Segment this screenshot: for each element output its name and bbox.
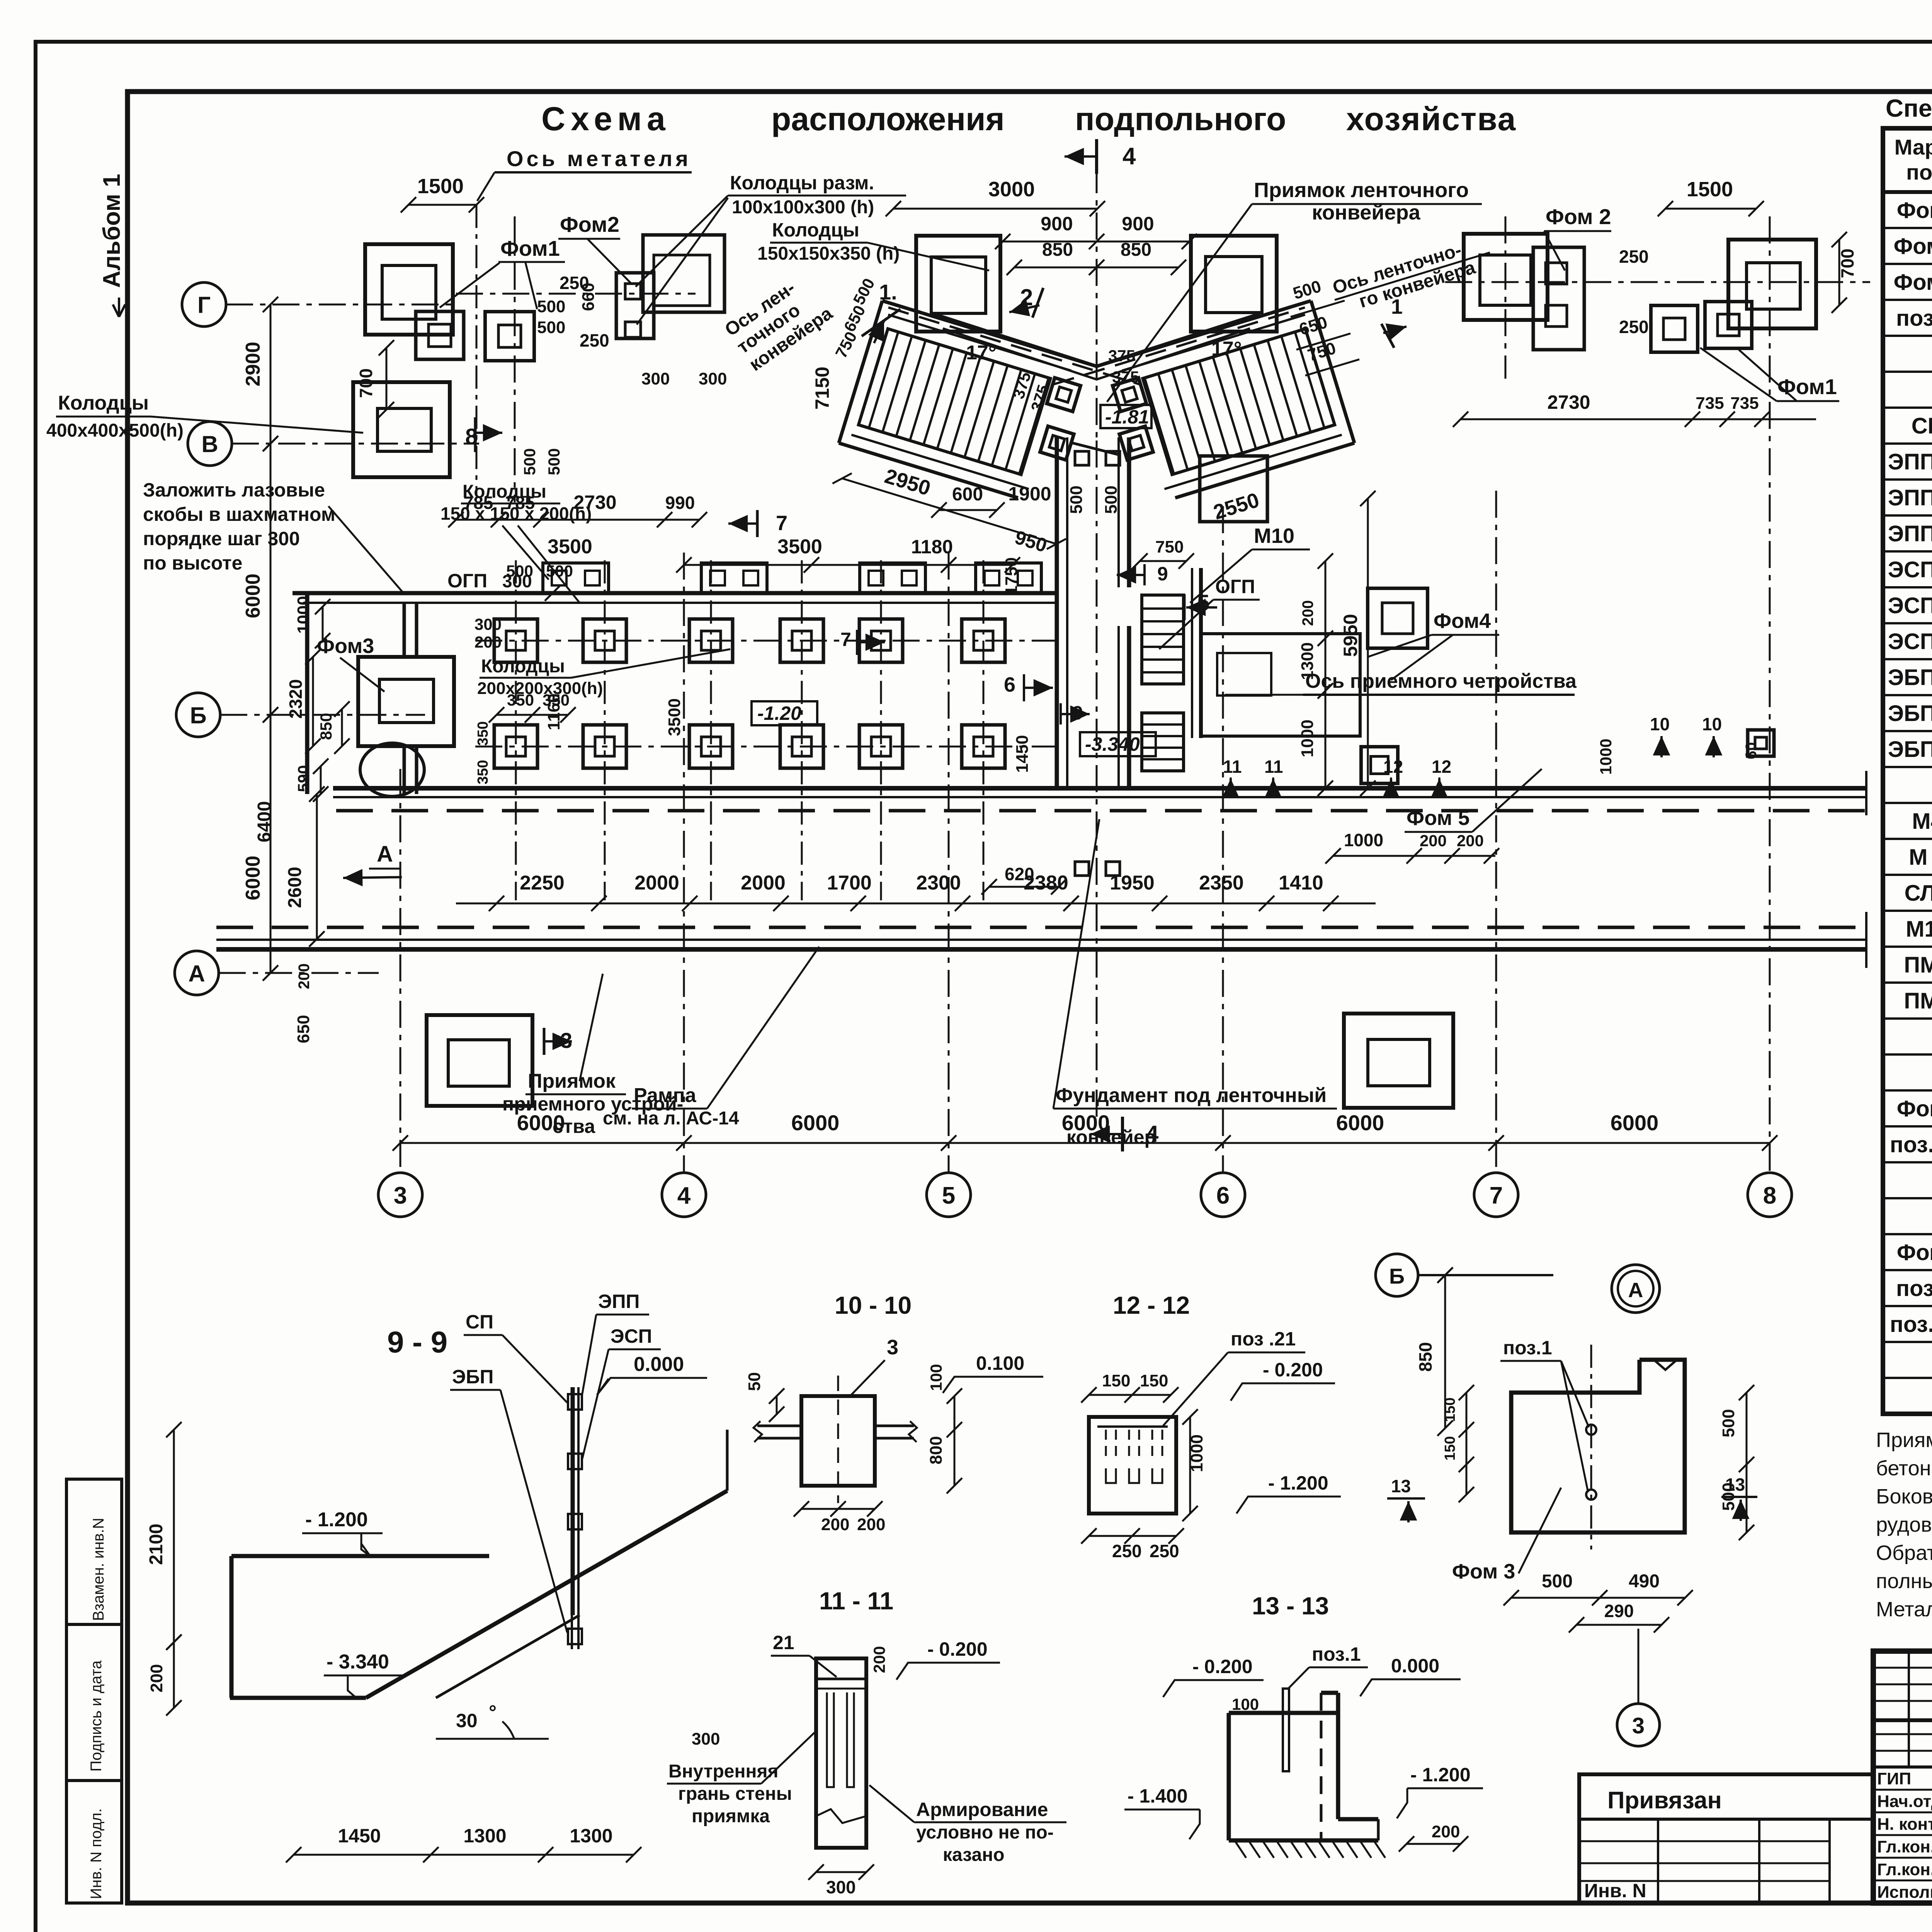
svg-text:3: 3 [887,1336,898,1359]
svg-text:Фундамент под ленточный: Фундамент под ленточный [1056,1084,1327,1107]
svg-text:1180: 1180 [911,536,953,558]
svg-text:490: 490 [1629,1571,1660,1592]
grid bubble 3 detail [1617,1704,1660,1746]
label axis of belt conveyor left (rotated) [721,268,836,375]
svg-text:условно не по-: условно не по- [916,1822,1054,1843]
svg-text:350: 350 [543,691,570,709]
svg-text:Заложить лазовые: Заложить лазовые [143,479,325,501]
foundation unit Fom2 right [1533,247,1584,350]
channel ladder squares [1075,451,1089,465]
svg-text:250: 250 [1112,1541,1142,1561]
title block [1873,1651,1932,1903]
svg-text:290: 290 [1604,1601,1634,1621]
dims top-left cluster [408,204,476,206]
svg-text:990: 990 [665,493,695,513]
left trench outline [293,591,1057,595]
dim row 785 785 2730 990 [456,519,699,521]
svg-text:ЭСП 60: ЭСП 60 [1888,629,1932,654]
privyazan block [1579,1774,1873,1903]
foundation big square top-right 2 [1728,240,1816,328]
svg-text:Привязан: Привязан [1607,1787,1722,1814]
svg-text:Колодцы: Колодцы [481,656,565,677]
svg-text:поз. 20: поз. 20 [1890,1312,1932,1337]
svg-text:А: А [188,961,205,986]
foundation squares row 2 [494,725,537,768]
svg-text:1: 1 [1391,295,1403,318]
central channel walls [1055,437,1059,788]
svg-text:250: 250 [1619,317,1649,337]
svg-text:М10: М10 [1906,917,1932,942]
svg-text:Б: Б [1389,1264,1405,1288]
svg-text:11 - 11: 11 - 11 [819,1587,893,1615]
svg-text:порядке шаг 300: порядке шаг 300 [143,528,300,549]
svg-text:ЭСП 18: ЭСП 18 [1888,593,1932,618]
9-9 dim 200 [173,1642,175,1708]
foundation rect right of Fom2 [643,235,724,312]
svg-text:1300: 1300 [463,1825,506,1847]
svg-text:700: 700 [1837,248,1857,278]
svg-text:150: 150 [1442,1398,1458,1422]
12-12 body [1089,1417,1176,1514]
svg-text:200: 200 [1420,832,1447,850]
svg-text:В: В [201,431,218,457]
road band lines [333,786,1866,791]
svg-text:Фом3: Фом3 [317,634,374,658]
dims 1000 200 200 right road [1333,855,1495,857]
svg-text:А: А [1628,1279,1643,1302]
svg-text:поз. 1: поз. 1 [1896,306,1932,331]
svg-text:М4: М4 [1912,809,1932,834]
svg-text:3500: 3500 [548,536,592,558]
svg-text:Фом 2: Фом 2 [1894,234,1932,259]
13-13 ground hatch [1235,1840,1246,1858]
svg-text:3500: 3500 [777,536,822,558]
svg-text:Альбом 1: Альбом 1 [99,174,125,288]
svg-text:9: 9 [1157,563,1168,585]
svg-text:4: 4 [677,1182,691,1209]
svg-text:Взамен. инв.N: Взамен. инв.N [90,1518,107,1621]
svg-text:500: 500 [1067,486,1086,514]
foundation small squares right [1651,306,1698,352]
svg-text:350: 350 [475,760,491,784]
svg-text:Фом 3: Фом 3 [1452,1560,1515,1583]
svg-text:ЭБП: ЭБП [452,1366,493,1388]
svg-text:Боковые поверхности стен при: Боковые поверхности стен приямков и фунд… [1876,1485,1932,1508]
svg-text:Фом1: Фом1 [500,236,560,260]
svg-text:Обратную засыпку пазух пр: Обратную засыпку пазух производить местн… [1876,1541,1932,1565]
svg-text:850: 850 [1121,240,1151,260]
svg-text:ЭСП: ЭСП [611,1325,652,1347]
shaft from trench corner down to Fom3 [403,603,406,657]
svg-text:ЭПП 60: ЭПП 60 [1888,521,1932,546]
dims top-right cluster [1665,208,1756,210]
svg-text:- 0.200: - 0.200 [1263,1359,1323,1381]
svg-text:5: 5 [942,1182,955,1209]
svg-text:50: 50 [745,1372,764,1391]
svg-text:21: 21 [773,1632,794,1653]
section mark 4 bottom [1121,1117,1124,1151]
dim row 3500 3500 1180 [684,564,1012,566]
svg-text:350: 350 [507,691,534,709]
svg-text:Приямки, фундаменты под обор: Приямки, фундаменты под оборудование вып… [1876,1429,1932,1452]
svg-text:6000: 6000 [791,1111,840,1135]
svg-text:2320: 2320 [286,679,306,719]
svg-text:1700: 1700 [827,872,872,894]
svg-text:Фом4: Фом4 [1434,609,1491,633]
svg-text:7150: 7150 [811,367,833,410]
row axis lines [226,304,456,306]
svg-text:1.: 1. [879,280,897,304]
svg-text:900: 900 [1122,213,1154,235]
svg-text:3000: 3000 [988,178,1035,201]
detail Fom3 bottom dims [1511,1597,1685,1599]
svg-text:1000: 1000 [1344,830,1383,850]
svg-text:Инв. N: Инв. N [1584,1880,1646,1901]
svg-text:900: 900 [1041,213,1073,235]
svg-text:200: 200 [857,1515,885,1534]
svg-text:13: 13 [1391,1476,1411,1496]
svg-text:2000: 2000 [634,872,679,894]
svg-text:300: 300 [474,615,502,633]
svg-text:- 0.200: - 0.200 [1192,1656,1253,1677]
small foundation near 60 mark [1748,730,1774,756]
svg-text:Фом1: Фом1 [1897,198,1932,223]
svg-text:650: 650 [294,1015,313,1043]
foundation square right of shaft [1368,588,1428,648]
foundation big square top-right 1 [1464,234,1548,320]
axis line through top-left cluster [456,293,696,295]
svg-text:2600: 2600 [285,867,305,908]
svg-text:СП: СП [1912,413,1932,439]
Y pit top square left [916,236,1000,332]
9-9 pit outline [231,1554,489,1558]
svg-text:Фом5: Фом5 [1897,1240,1932,1265]
svg-text:Инв. N подл.: Инв. N подл. [88,1808,105,1899]
svg-text:ЭСП 15: ЭСП 15 [1888,557,1932,582]
dims above Y pit [893,208,1097,210]
column grid lines 3-8 [400,769,401,1173]
svg-text:0.000: 0.000 [634,1353,684,1376]
row axis bubbles [182,282,226,327]
svg-text:150: 150 [1140,1371,1168,1390]
svg-text:Фом1: Фом1 [1777,374,1837,399]
svg-text:660: 660 [579,283,598,311]
svg-text:Фом 2: Фом 2 [1546,204,1611,229]
svg-text:3500: 3500 [665,698,684,736]
foundation big square V-row [353,382,450,477]
svg-text:13 - 13: 13 - 13 [1252,1592,1329,1620]
svg-text:поз .21: поз .21 [1231,1328,1296,1350]
svg-text:2300: 2300 [916,872,961,894]
svg-text:500: 500 [1102,486,1121,514]
svg-text:200х200х300(h): 200х200х300(h) [477,679,603,698]
svg-text:10: 10 [1702,714,1722,734]
OGP fence outline right [1201,634,1360,736]
svg-text:Гл.кон.пр.: Гл.кон.пр. [1877,1860,1932,1879]
svg-text:Г: Г [197,292,211,318]
Y pit left arm [825,301,1141,568]
svg-text:приямка: приямка [692,1806,770,1827]
svg-text:8: 8 [1763,1182,1776,1209]
svg-text:3: 3 [394,1182,407,1209]
svg-text:350: 350 [475,721,491,746]
svg-text:- 1.200: - 1.200 [1410,1764,1471,1786]
dim row 2730 735 735 right [1461,418,1816,420]
svg-text:Внутренняя: Внутренняя [668,1761,778,1782]
svg-text:750: 750 [1155,537,1184,556]
svg-text:2000: 2000 [741,872,786,894]
svg-text:200: 200 [870,1646,888,1673]
foundation square below road left [427,1015,532,1106]
svg-text:1450: 1450 [338,1825,381,1847]
svg-text:грань стены: грань стены [678,1784,792,1804]
foundation unit Fom2 left [616,273,654,338]
svg-text:6000: 6000 [242,573,264,618]
right vertical dims 5950 1300 1000 200 [1325,561,1327,788]
svg-text:1950: 1950 [1110,872,1155,894]
svg-text:Колодцы разм.: Колодцы разм. [730,172,874,194]
svg-text:200: 200 [1432,1822,1460,1841]
svg-text:250: 250 [1619,247,1649,267]
svg-text:30: 30 [456,1710,478,1731]
svg-text:850: 850 [1042,240,1073,260]
svg-text:ОГП: ОГП [447,570,487,592]
Y pit V outline [933,314,1260,366]
OGP posts on trench edge [543,563,609,593]
svg-text:см. на л. АС-14: см. на л. АС-14 [603,1108,739,1129]
10-10 beams [757,1425,801,1427]
svg-text:А: А [377,842,393,867]
svg-text:ГИП: ГИП [1877,1769,1911,1788]
svg-text:СП: СП [466,1311,493,1333]
svg-text:Б: Б [190,702,206,728]
svg-text:бетона класса В10.: бетона класса В10. [1876,1457,1932,1480]
svg-text:Спецификация к схеме распол: Спецификация к схеме расположения подпол… [1886,94,1932,122]
svg-text:хозяйства: хозяйства [1346,101,1516,137]
svg-text:590: 590 [294,765,313,792]
svg-text:500: 500 [1719,1409,1738,1437]
svg-text:подпольного: подпольного [1075,101,1286,137]
foundation squares row 1 [494,619,537,662]
svg-text:ЭПП 15: ЭПП 15 [1888,449,1932,474]
svg-text:М 6: М 6 [1909,845,1932,870]
9-9 dim row 1450 1300 1300 [294,1854,634,1856]
svg-text:735: 735 [1730,394,1759,413]
svg-text:6000: 6000 [1611,1111,1659,1135]
13-13 body [1229,1711,1338,1715]
svg-text:рудование обмазать горячим: рудование обмазать горячим битумом за 2 … [1876,1513,1932,1536]
svg-text:850: 850 [317,713,335,740]
svg-text:поз.1: поз.1 [1312,1643,1361,1665]
svg-text:Колодцы: Колодцы [772,219,859,241]
svg-text:250: 250 [580,330,609,350]
svg-text:850: 850 [1415,1342,1435,1372]
detail Fom3 plan [1511,1360,1685,1532]
svg-text:6000: 6000 [242,855,264,900]
svg-text:ЭБП 18: ЭБП 18 [1888,701,1932,726]
svg-text:Колодцы: Колодцы [58,392,149,414]
svg-text:500: 500 [537,318,565,337]
svg-text:Исполн.: Исполн. [1877,1883,1932,1902]
svg-text:Ось метателя: Ось метателя [507,146,691,171]
svg-text:1000: 1000 [1597,739,1615,775]
11-11 body [816,1658,866,1848]
svg-text:Армирование: Армирование [916,1799,1048,1820]
svg-text:200: 200 [147,1664,166,1692]
svg-text:- 1.200: - 1.200 [1268,1472,1328,1494]
svg-text:200: 200 [821,1515,849,1534]
svg-text:150: 150 [1442,1436,1458,1461]
svg-text:300: 300 [699,369,727,388]
svg-text:поз.: поз. [1906,160,1932,184]
svg-text:100: 100 [1232,1695,1259,1713]
svg-text:6000: 6000 [1336,1111,1384,1135]
svg-text:500: 500 [520,448,539,475]
svg-text:Фом2: Фом2 [560,212,619,236]
svg-text:1000: 1000 [294,596,313,634]
svg-text:7: 7 [840,629,851,650]
svg-text:1410: 1410 [1279,872,1323,894]
svg-text:200: 200 [296,963,313,989]
svg-text:6: 6 [1004,673,1015,696]
svg-text:9 - 9: 9 - 9 [387,1325,447,1359]
svg-text:700: 700 [356,368,376,398]
svg-text:375: 375 [1108,347,1135,365]
svg-text:СЛХ: СЛХ [1905,881,1932,906]
svg-text:6: 6 [1216,1182,1230,1209]
svg-text:ПМ3: ПМ3 [1904,952,1932,978]
svg-text:Фом 3: Фом 3 [1894,270,1932,295]
svg-text:150: 150 [1102,1371,1130,1390]
10-10 body [801,1396,875,1486]
svg-text:735: 735 [1696,394,1724,413]
svg-text:2730: 2730 [1547,391,1590,413]
label axis of belt conveyor right (rotated) [1328,232,1496,319]
svg-text:12: 12 [1432,757,1451,777]
svg-text:1450: 1450 [1013,735,1032,773]
svg-text:по высоте: по высоте [143,552,242,574]
svg-text:1300: 1300 [1298,642,1317,680]
svg-text:Марка: Марка [1895,135,1932,159]
svg-text:1000: 1000 [1298,719,1317,757]
svg-text:10: 10 [1650,714,1670,734]
9-9 dim 2100 [173,1430,175,1642]
svg-text:2250: 2250 [520,872,565,894]
svg-text:- 0.200: - 0.200 [927,1638,988,1660]
foundation small square Fom1 right [485,312,534,361]
svg-text:150 х 150 х 200(h): 150 х 150 х 200(h) [440,503,592,524]
svg-text:Фом 5: Фом 5 [1406,806,1469,830]
svg-text:10 - 10: 10 - 10 [835,1291,912,1319]
svg-text:Приямок: Приямок [528,1070,616,1092]
svg-text:1750: 1750 [1002,557,1021,595]
central shaft axis line [1096,440,1098,1117]
svg-text:100: 100 [927,1364,945,1391]
svg-text:Схема: Схема [541,100,671,138]
level box -3.340 [1080,732,1156,756]
svg-text:200: 200 [474,633,502,651]
svg-text:500: 500 [537,297,565,316]
svg-text:расположения: расположения [771,101,1005,137]
svg-text:конвейер: конвейер [1066,1126,1156,1148]
svg-text:- 1.400: - 1.400 [1128,1785,1188,1807]
svg-text:ЭПП 18: ЭПП 18 [1888,485,1932,510]
svg-text:-3.340: -3.340 [1085,733,1140,755]
svg-text:Н. контр.: Н. контр. [1877,1815,1932,1833]
svg-text:150х150х350 (h): 150х150х350 (h) [757,243,900,264]
grid spacing dimension 6000 x5 [400,1142,1770,1144]
svg-text:казано: казано [943,1845,1005,1865]
svg-text:500: 500 [545,448,563,475]
svg-text:Нач.отд.: Нач.отд. [1877,1792,1932,1811]
svg-text:300: 300 [502,571,532,591]
svg-text:12: 12 [1383,757,1403,777]
svg-text:Рампа: Рампа [634,1084,697,1107]
svg-text:Металлоконструкции окрасить: Металлоконструкции окрасить масляной кра… [1876,1598,1932,1621]
Fom3 cluster [358,657,454,746]
svg-text:1300: 1300 [570,1825,612,1847]
svg-text:800: 800 [927,1436,946,1464]
svg-text:17°: 17° [1211,338,1242,360]
svg-text:500: 500 [1542,1571,1573,1592]
svg-text:4: 4 [1146,1121,1159,1147]
svg-text:200: 200 [1457,832,1484,850]
svg-text:300: 300 [692,1730,720,1748]
svg-text:11: 11 [1223,757,1242,777]
svg-text:ЭПП: ЭПП [598,1291,639,1312]
svg-text:300: 300 [641,369,670,388]
svg-text:1900: 1900 [1008,483,1051,505]
axis lines through foundation rows [475,640,1059,642]
Y pit right arm [1052,301,1365,558]
foundation small square Fom1 left [416,311,464,359]
grid bubbles 3-8 [378,1173,422,1217]
svg-text:ства: ства [553,1116,595,1137]
svg-text:Подпись и дата: Подпись и дата [88,1660,105,1772]
svg-text:поз. 21: поз. 21 [1890,1132,1932,1157]
svg-text:6400: 6400 [254,801,275,842]
svg-text:2900: 2900 [242,342,264,386]
svg-text:620: 620 [1005,864,1034,884]
svg-text:250: 250 [1150,1541,1179,1561]
svg-text:ОГП: ОГП [1215,576,1255,597]
foundation square under right arm [1200,456,1267,522]
level box -1.81 [1100,405,1151,428]
svg-text:12 - 12: 12 - 12 [1113,1291,1190,1319]
svg-text:2100: 2100 [146,1524,167,1565]
svg-text:полным уплотнением.: полным уплотнением. [1876,1570,1932,1593]
stair block lower [1142,713,1184,771]
svg-text:300: 300 [826,1877,856,1897]
svg-text:- 1.200: - 1.200 [305,1509,368,1531]
svg-text:0.100: 0.100 [976,1352,1024,1374]
svg-text:1500: 1500 [417,175,464,198]
svg-text:100х100х300 (h): 100х100х300 (h) [732,197,874,218]
detail Fom3 axis B [1376,1254,1418,1296]
svg-text:поз. 3: поз. 3 [1896,1276,1932,1301]
specification table grid [1883,128,1932,1414]
svg-text:400х400х500(h): 400х400х500(h) [46,420,184,441]
svg-text:0.000: 0.000 [1391,1655,1439,1677]
axis bubble A detail [1612,1265,1660,1313]
svg-text:Фом4: Фом4 [1897,1096,1932,1121]
svg-text:7: 7 [1490,1182,1503,1209]
small foundation Fom5 [1361,747,1398,784]
svg-text:М10: М10 [1254,524,1294,548]
center axis of Y pit [1096,166,1098,440]
svg-text:Приямок ленточного: Приямок ленточного [1254,179,1469,202]
svg-text:ЭБП 15: ЭБП 15 [1888,665,1932,690]
